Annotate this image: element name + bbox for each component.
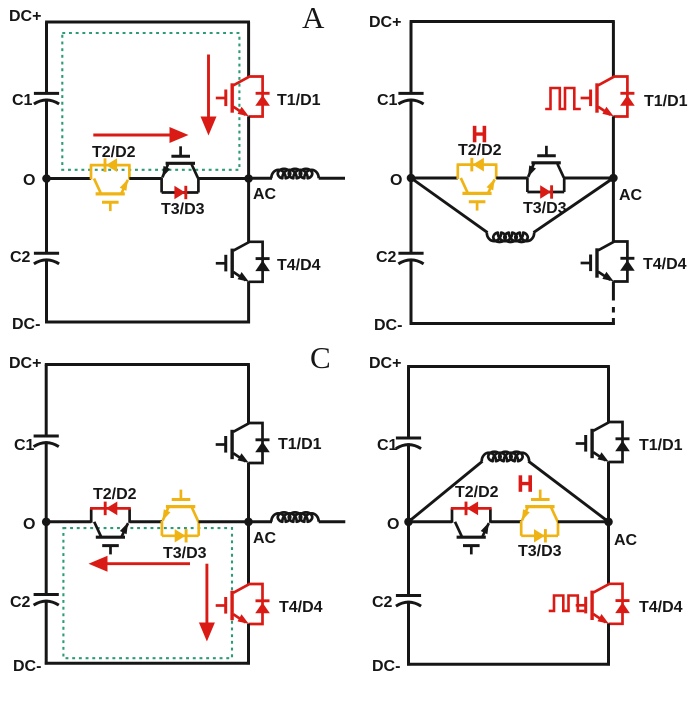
wire T2 to T3	[129, 177, 161, 180]
capacitor C1 (panel D)	[396, 438, 421, 449]
svg-text:T3/D3: T3/D3	[518, 543, 562, 560]
wire DC+ top rail	[407, 365, 610, 368]
wire AC to inductor	[249, 520, 273, 523]
svg-text:DC-: DC-	[13, 658, 41, 675]
diode D2 (anti-parallel, panel B)	[457, 158, 498, 179]
svg-text:T1/D1: T1/D1	[644, 93, 688, 110]
node O (panel C)	[42, 518, 51, 527]
current direction arrow (rightward to AC, panel A)	[93, 127, 188, 143]
wire T3 to AC node	[558, 520, 609, 523]
svg-text:C1: C1	[12, 92, 33, 109]
wire right rail top	[247, 22, 250, 77]
svg-text:C1: C1	[377, 92, 398, 109]
wire left rail upper	[45, 22, 48, 93]
inductor L (panel C)	[271, 512, 318, 521]
transistor T2 (IGBT, panel D)	[455, 522, 489, 555]
wire left rail middle	[45, 99, 48, 254]
node O (panel D)	[404, 518, 413, 527]
PWM gate pulse train (gate of T1, panel B)	[545, 88, 581, 109]
svg-text:O: O	[23, 172, 35, 189]
capacitor C2 (panel A)	[34, 253, 59, 264]
node O (panel A)	[42, 174, 51, 183]
wire left rail upper	[410, 22, 413, 94]
wire inductor to AC terminal	[319, 520, 346, 523]
svg-text:C2: C2	[10, 249, 31, 266]
wire right rail top	[247, 365, 250, 424]
svg-text:T4/D4: T4/D4	[279, 599, 323, 616]
svg-text:T2/D2: T2/D2	[455, 484, 499, 501]
transistor T4 (IGBT, panel D)	[576, 584, 609, 624]
transistor T1 (IGBT, panel B)	[581, 77, 614, 117]
wire left rail lower	[45, 259, 48, 324]
wire left rail upper	[45, 365, 48, 437]
current direction arrow (leftward to O, panel C)	[89, 556, 191, 572]
svg-text:AC: AC	[614, 532, 638, 549]
svg-text:O: O	[23, 516, 35, 533]
wire right rail top	[612, 22, 615, 77]
wire DC- bottom rail	[410, 322, 615, 325]
diode D2 (anti-parallel, panel C)	[90, 502, 131, 523]
diode D4 (anti-parallel, panel D)	[609, 584, 630, 624]
wire O to T2	[411, 177, 458, 180]
capacitor C1 (panel C)	[34, 436, 59, 447]
wire DC+ top rail	[410, 20, 615, 23]
wire DC- bottom rail	[45, 662, 250, 665]
svg-text:AC: AC	[253, 186, 277, 203]
svg-text:T3/D3: T3/D3	[523, 200, 567, 217]
wire left rail lower	[45, 600, 48, 665]
PWM gate pulse train (gate of T4, panel D)	[549, 596, 585, 611]
wire right rail T1-AC	[247, 463, 250, 584]
transistor T3 (IGBT, panel C)	[162, 490, 198, 522]
svg-text:C2: C2	[376, 249, 397, 266]
capacitor C2 (panel C)	[34, 595, 59, 606]
svg-text:C2: C2	[10, 594, 31, 611]
transistor T3 (IGBT, panel A)	[162, 146, 198, 178]
gate signal high level "H" (gate of T3, panel D)	[520, 475, 530, 492]
svg-text:C1: C1	[377, 437, 398, 454]
diode D4 (anti-parallel, panel B)	[613, 242, 634, 282]
transistor T3 (IGBT, panel B)	[528, 146, 564, 178]
svg-text:DC-: DC-	[372, 658, 400, 675]
wire O to T2	[47, 177, 92, 180]
svg-text:DC+: DC+	[9, 8, 41, 25]
diode D1 (anti-parallel, panel B)	[613, 77, 634, 117]
wire left rail middle	[45, 441, 48, 594]
capacitor C2 (panel D)	[396, 596, 421, 607]
diode D3 (anti-parallel, panel C)	[162, 521, 199, 543]
transistor T3 (IGBT, panel D)	[522, 490, 558, 522]
svg-text:T1/D1: T1/D1	[639, 437, 683, 454]
wire right rail T1-AC	[247, 116, 250, 242]
svg-text:T2/D2: T2/D2	[93, 486, 137, 503]
diode D4 (anti-parallel, panel C)	[249, 584, 270, 624]
transistor T1 (IGBT, panel A)	[216, 77, 249, 117]
wire T3 to AC node	[198, 177, 248, 180]
current commutation loop (green dashed)	[63, 528, 232, 658]
svg-text:C1: C1	[14, 437, 35, 454]
diode D2 (anti-parallel, panel A)	[90, 158, 131, 179]
transistor T1 (IGBT, panel C)	[216, 423, 249, 463]
node O (panel B)	[407, 174, 416, 183]
wire O to load inductor (slant)	[409, 461, 483, 522]
inductor L load (panel B)	[487, 233, 534, 242]
node AC (panel C)	[244, 518, 253, 527]
svg-text:T4/D4: T4/D4	[277, 257, 321, 274]
transistor T4 (IGBT, panel B)	[581, 242, 614, 282]
svg-text:AC: AC	[619, 187, 643, 204]
wire O to T2	[46, 520, 91, 523]
wire left rail upper	[407, 367, 410, 439]
wire T2 to T3	[496, 177, 527, 180]
diode D1 (anti-parallel, panel D)	[609, 422, 630, 462]
wire DC+ top rail	[45, 21, 250, 24]
wire load inductor to AC (slant)	[528, 461, 608, 522]
svg-text:T4/D4: T4/D4	[639, 599, 683, 616]
svg-text:O: O	[390, 172, 402, 189]
node AC (panel B)	[609, 174, 618, 183]
wire AC to inductor	[249, 177, 272, 180]
wire DC+ top rail	[45, 363, 250, 366]
wire T2 to T3	[130, 520, 163, 523]
wire right rail T4-DC-	[247, 282, 250, 324]
wire DC- bottom rail	[45, 321, 250, 324]
current direction arrow (down through T1, panel A)	[201, 55, 217, 136]
transistor T4 (IGBT, panel C)	[216, 584, 249, 624]
wire T3 to AC node	[564, 177, 613, 180]
svg-text:T3/D3: T3/D3	[163, 545, 207, 562]
capacitor C2 (panel B)	[398, 253, 423, 264]
diode D1 (anti-parallel, panel A)	[249, 77, 270, 117]
wire left rail lower	[410, 259, 413, 325]
current commutation loop (green dashed)	[62, 33, 239, 170]
wire load inductor to AC (slant)	[534, 178, 614, 233]
transistor T4 (IGBT, panel A)	[216, 242, 249, 282]
svg-text:C2: C2	[372, 594, 393, 611]
wire inductor to AC terminal	[319, 177, 345, 180]
wire O to load inductor (slant)	[411, 178, 488, 233]
current direction arrow (down through T4, panel C)	[199, 564, 215, 642]
transistor T2 (IGBT, panel B)	[461, 178, 495, 211]
diode D3 (anti-parallel, panel D)	[521, 521, 558, 543]
svg-text:T4/D4: T4/D4	[643, 256, 687, 273]
svg-text:T1/D1: T1/D1	[278, 436, 322, 453]
wire T3 to AC node	[199, 520, 249, 523]
wire left rail lower	[407, 601, 410, 666]
wire right rail T4-DC-	[612, 281, 615, 325]
wire right rail T4-DC-	[607, 624, 610, 666]
node AC (panel A)	[244, 174, 253, 183]
diode D4 (anti-parallel, panel A)	[249, 242, 270, 282]
transistor T2 (IGBT, panel A)	[94, 179, 128, 212]
wire right rail T1-AC	[607, 462, 610, 584]
capacitor C1 (panel B)	[398, 93, 423, 104]
capacitor C1 (panel A)	[34, 93, 59, 104]
wire O to T2	[409, 520, 453, 523]
svg-text:T1/D1: T1/D1	[277, 92, 321, 109]
svg-text:DC+: DC+	[9, 355, 41, 372]
svg-text:T2/D2: T2/D2	[92, 144, 136, 161]
wire left rail middle	[407, 443, 410, 595]
wire right rail T1-AC	[612, 116, 615, 241]
svg-text:A: A	[302, 0, 325, 35]
inductor L load (panel D)	[482, 452, 529, 461]
svg-text:DC-: DC-	[374, 317, 402, 334]
wire T2 to T3	[490, 520, 521, 523]
svg-text:C: C	[310, 340, 331, 375]
diode D3 (anti-parallel, panel B)	[527, 177, 564, 199]
svg-text:AC: AC	[253, 530, 277, 547]
wire right rail top	[607, 367, 610, 423]
node AC (panel D)	[604, 518, 613, 527]
transistor T1 (IGBT, panel D)	[576, 422, 609, 462]
inductor L (panel A)	[271, 169, 318, 178]
wire DC- bottom rail	[407, 663, 610, 666]
svg-text:DC+: DC+	[369, 355, 401, 372]
transistor T2 (IGBT, panel C)	[94, 522, 128, 555]
svg-text:DC+: DC+	[369, 14, 401, 31]
svg-text:T3/D3: T3/D3	[161, 201, 205, 218]
gate signal high level "H" (gate of T2, panel B)	[475, 126, 485, 143]
diode D3 (anti-parallel, panel A)	[162, 178, 199, 200]
svg-text:O: O	[387, 516, 399, 533]
diode D1 (anti-parallel, panel C)	[249, 423, 270, 463]
watermark blob (white, over panel B right rail)	[606, 301, 618, 308]
wire right rail T4-DC-	[247, 624, 250, 665]
wire left rail middle	[410, 99, 413, 254]
svg-text:DC-: DC-	[12, 316, 40, 333]
diode D2 (anti-parallel, panel D)	[451, 502, 492, 523]
svg-text:T2/D2: T2/D2	[458, 142, 502, 159]
